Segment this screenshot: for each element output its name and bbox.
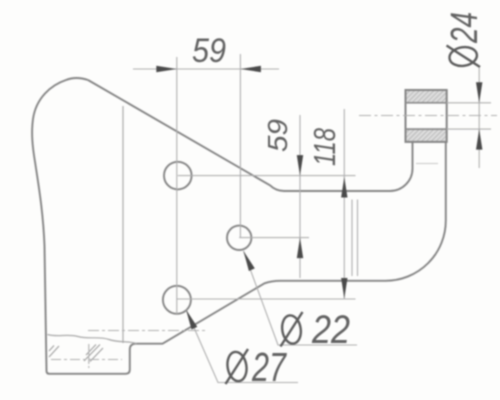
extension line vertical left (through C1,C3) <box>176 57 178 314</box>
arrow 59v lower <box>297 238 303 259</box>
boss block hatched top band <box>406 90 447 103</box>
dimension line 59 top <box>133 68 279 70</box>
boss bore line upper <box>406 102 447 104</box>
hole circle C2 <box>227 226 251 250</box>
svg-text:22: 22 <box>311 308 350 352</box>
extension line upper bore <box>447 102 491 104</box>
leader diameter 22 <box>244 251 358 345</box>
tangent edge line b <box>357 200 359 277</box>
dimension line diameter 24 <box>478 68 480 168</box>
arrow d24 lower <box>476 129 482 150</box>
dimension text diameter 27 <box>225 344 287 390</box>
centerline vertical hole axis <box>88 344 90 368</box>
svg-text:59: 59 <box>262 119 293 152</box>
arrow 118 lower <box>341 278 347 299</box>
hole circle C3 <box>163 286 191 314</box>
leader diameter 27 <box>186 310 298 383</box>
wire break line of local section <box>48 335 137 344</box>
svg-text:59: 59 <box>192 32 226 70</box>
hatch patch left <box>49 346 59 358</box>
extension line horizontal from C1 <box>178 175 356 177</box>
node web edge line <box>122 106 124 343</box>
centerline horizontal base upper <box>88 330 205 332</box>
arrow d24 upper <box>476 82 482 103</box>
centerline of boss <box>359 115 497 117</box>
svg-text:27: 27 <box>251 344 287 390</box>
tangent edge line a <box>351 200 353 277</box>
extension line horizontal from C2 <box>239 237 309 239</box>
extension line horizontal from C3 <box>177 298 356 300</box>
dimension line 59 vertical <box>299 115 301 278</box>
boss bore line lower <box>406 128 447 130</box>
tube faint end line <box>416 163 438 165</box>
boss block hatched bottom band <box>406 129 447 142</box>
svg-text:24: 24 <box>444 12 486 44</box>
hatch patch center <box>84 345 103 362</box>
arrow 59 top right <box>240 66 261 72</box>
arrow 59v upper <box>297 155 303 176</box>
hole circle C1 <box>164 162 192 190</box>
arrow d27 <box>186 310 197 330</box>
dimension text diameter 22 <box>280 308 350 352</box>
svg-text:118: 118 <box>307 127 342 166</box>
extension line vertical right (to C2) <box>239 54 241 238</box>
wire top diagonal and tube left edge <box>88 80 413 191</box>
extension line lower bore <box>447 128 491 130</box>
boss block outline <box>406 90 447 142</box>
wire main part outline left+top <box>32 78 446 374</box>
arrow 59 top left <box>156 66 177 72</box>
dimension text diameter 24 <box>444 12 486 68</box>
dimension line 118 vertical <box>343 109 345 299</box>
arrow 118 upper <box>341 177 347 198</box>
centerline horizontal base lower <box>51 359 122 361</box>
arrow d22 <box>244 251 255 271</box>
